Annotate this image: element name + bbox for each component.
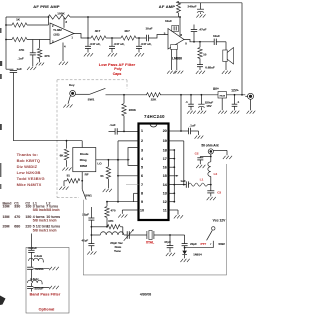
label date bbox=[140, 292, 151, 296]
switch SW1 RF section bbox=[82, 189, 92, 199]
svg-text:Caps: Caps bbox=[113, 72, 122, 76]
capacitor .1uF input bbox=[18, 40, 36, 67]
svg-text:Todd VE3BVG: Todd VE3BVG bbox=[17, 176, 45, 181]
svg-text:9: 9 bbox=[141, 200, 143, 204]
arrow LO into IC bbox=[127, 159, 129, 161]
svg-text:.1: .1 bbox=[237, 100, 240, 104]
capacitor 10uF output bbox=[213, 34, 226, 45]
svg-text:Diode: Diode bbox=[80, 152, 89, 156]
wire pin18 bus bbox=[169, 149, 176, 202]
wire SW1 link dashed bbox=[57, 80, 127, 198]
svg-text:Thanks to:: Thanks to: bbox=[17, 152, 38, 157]
ground pin10 bbox=[118, 214, 127, 217]
label Key bbox=[69, 83, 75, 87]
svg-text:10uF: 10uF bbox=[145, 26, 152, 30]
wire osc node bbox=[91, 226, 108, 228]
svg-text:10uF: 10uF bbox=[213, 34, 220, 38]
svg-text:78L08: 78L08 bbox=[219, 95, 226, 97]
label Vcc 12V bbox=[213, 218, 226, 222]
wire inverting input bbox=[48, 16, 50, 25]
resistor 4K7 first bbox=[91, 29, 106, 40]
label thanks credits bbox=[17, 152, 45, 187]
wire pin8 to V+ bbox=[63, 17, 65, 28]
wire coil to trimmer bbox=[124, 234, 127, 236]
svg-text:1uF: 1uF bbox=[180, 179, 186, 183]
svg-text:10: 10 bbox=[203, 53, 207, 57]
svg-text:47K: 47K bbox=[108, 219, 114, 223]
wire pins2-4 to ground bbox=[171, 45, 178, 70]
inductor osc coil bbox=[100, 232, 124, 235]
connector antenna jack bbox=[208, 149, 213, 154]
svg-text:15: 15 bbox=[163, 174, 167, 178]
speaker SPK bbox=[223, 42, 234, 64]
label AF AMP bbox=[159, 4, 176, 9]
trimmer 20pF Var bbox=[124, 229, 147, 241]
wire pin12 tap bbox=[169, 201, 176, 203]
ground BPF mid bbox=[49, 267, 59, 270]
capacitor 0.68uF zobel bbox=[197, 59, 215, 71]
ground C2 bbox=[196, 165, 205, 168]
wire 12V top bbox=[179, 2, 243, 5]
svg-text:220K: 220K bbox=[129, 108, 137, 112]
label 12V+ bbox=[231, 89, 239, 93]
svg-text:C2: C2 bbox=[195, 151, 199, 155]
wire jack ground bbox=[250, 99, 252, 110]
mixer U3 Diode Ring DBM bbox=[73, 148, 96, 172]
svg-text:2.2uH: 2.2uH bbox=[34, 254, 42, 258]
wire ant to ground bbox=[213, 150, 227, 155]
svg-text:330: 330 bbox=[14, 205, 20, 209]
label SW2 bbox=[210, 242, 225, 246]
svg-text:8V+: 8V+ bbox=[213, 87, 219, 91]
svg-text:10uF: 10uF bbox=[165, 19, 172, 23]
capacitor .47uF bypass bbox=[191, 25, 207, 42]
svg-text:12: 12 bbox=[163, 200, 167, 204]
svg-text:L2: L2 bbox=[214, 172, 218, 176]
svg-text:50 ohm Ant: 50 ohm Ant bbox=[201, 143, 219, 147]
ground pin11 bbox=[174, 215, 183, 218]
svg-text:12V+: 12V+ bbox=[231, 89, 239, 93]
svg-text:47pF: 47pF bbox=[164, 240, 171, 244]
ground 6K8 bbox=[62, 167, 71, 170]
wire pin9 line bbox=[107, 201, 139, 203]
svg-text:100: 100 bbox=[25, 205, 31, 209]
svg-text:PTT: PTT bbox=[200, 242, 206, 246]
svg-text:1 inch: 1 inch bbox=[46, 228, 56, 232]
ground pin20 cap bbox=[195, 136, 204, 139]
svg-text:1uF: 1uF bbox=[17, 67, 23, 71]
label 8V+ bbox=[213, 87, 219, 91]
capacitor .022uF bottom bbox=[27, 286, 43, 291]
wire pin8 stub bbox=[134, 193, 139, 201]
svg-text:20pF: 20pF bbox=[190, 242, 197, 246]
svg-text:.47uF: .47uF bbox=[199, 27, 207, 31]
resistor 10 zobel bbox=[198, 42, 207, 59]
regulator 78L08 bbox=[218, 92, 227, 98]
svg-text:AF AMP: AF AMP bbox=[159, 4, 176, 9]
ground cap left bbox=[187, 111, 196, 114]
svg-text:DBM: DBM bbox=[80, 164, 87, 168]
switch SW1 keying bbox=[88, 88, 106, 101]
ground 47pF right bbox=[166, 253, 175, 256]
resistor 4K7 second bbox=[121, 29, 136, 40]
ground 12V jack bbox=[247, 111, 256, 114]
connector key jack bbox=[70, 91, 76, 97]
resistor 47K input bbox=[6, 37, 50, 52]
svg-text:4K7: 4K7 bbox=[124, 29, 130, 33]
label Low Pass AF Filter bbox=[99, 62, 136, 76]
capacitor 47pF left bbox=[81, 235, 94, 251]
ground 51 RF bbox=[59, 187, 68, 190]
wire BPF mid ground bbox=[33, 267, 49, 269]
ground LM386 pin4 bbox=[175, 71, 184, 74]
svg-text:C3: C3 bbox=[217, 190, 221, 194]
svg-text:470: 470 bbox=[14, 215, 20, 219]
svg-text:XTAL: XTAL bbox=[146, 240, 154, 244]
wire pin14 output bbox=[169, 184, 187, 186]
wire osc column top bbox=[90, 207, 92, 218]
svg-text:Bob KB9TQ: Bob KB9TQ bbox=[17, 158, 41, 163]
connector 12V jack bbox=[245, 93, 253, 99]
svg-text:51: 51 bbox=[67, 174, 71, 178]
capacitor .1 left bbox=[185, 94, 193, 110]
svg-text:74HC240: 74HC240 bbox=[144, 114, 165, 119]
inductor L1 bbox=[188, 183, 210, 186]
wire BPF feed bbox=[30, 234, 32, 250]
ground 47pF left bbox=[87, 251, 96, 254]
op-amp U1 TL082 bbox=[50, 20, 74, 48]
svg-text:Band Pass Filter: Band Pass Filter bbox=[30, 293, 61, 297]
svg-text:.1: .1 bbox=[185, 100, 188, 104]
svg-text:/: / bbox=[210, 242, 211, 246]
node AF-V+ top rail bbox=[6, 16, 181, 18]
wire LM386 output bbox=[184, 40, 214, 43]
wire pin15 arrow bbox=[169, 175, 179, 177]
wire page border bbox=[83, 164, 226, 275]
svg-text:5/8 inch: 5/8 inch bbox=[46, 208, 59, 212]
wire 78L08 ground bbox=[221, 98, 223, 110]
ground op-amp bbox=[59, 62, 68, 65]
capacitor 1uF TX bbox=[180, 179, 188, 188]
svg-text:16: 16 bbox=[163, 166, 167, 170]
ground 240uF bbox=[196, 14, 205, 17]
svg-text:.1uF: .1uF bbox=[18, 57, 24, 61]
svg-text:4K7: 4K7 bbox=[95, 29, 101, 33]
svg-text:10: 10 bbox=[140, 208, 144, 212]
capacitor .022uF mid bbox=[27, 267, 44, 281]
capacitor 47pF right bbox=[164, 235, 173, 252]
svg-text:680: 680 bbox=[14, 225, 20, 229]
svg-text:.022uF: .022uF bbox=[28, 246, 38, 250]
capacitor 20pF bbox=[182, 235, 198, 251]
svg-text:(1/2): (1/2) bbox=[54, 33, 60, 37]
svg-text:Ring: Ring bbox=[80, 158, 87, 162]
wire pin11 ground bbox=[169, 210, 179, 215]
svg-text:AF PRE AMP: AF PRE AMP bbox=[33, 4, 60, 9]
svg-text:220: 220 bbox=[25, 225, 31, 229]
capacitor C2 bbox=[197, 157, 211, 165]
ground speaker bbox=[222, 71, 231, 74]
capacitor 240uF bbox=[188, 3, 204, 14]
svg-text:13: 13 bbox=[163, 192, 167, 196]
svg-text:14: 14 bbox=[163, 183, 167, 187]
wire RF from mixer bbox=[81, 172, 83, 190]
svg-text:18: 18 bbox=[163, 148, 167, 152]
capacitor .047uF shunt 2 bbox=[109, 38, 125, 53]
IC U4 74HC240 bbox=[139, 124, 169, 221]
svg-text:.047 uF,: .047 uF, bbox=[114, 42, 125, 46]
wire 51 RF to ground bbox=[64, 181, 67, 186]
wire key to ground bbox=[63, 95, 72, 107]
svg-text:SW2: SW2 bbox=[218, 242, 225, 246]
wire pin6 to V+ bbox=[179, 16, 181, 37]
resistor 100K feedback bbox=[48, 12, 70, 20]
resistor 1K bbox=[6, 18, 49, 28]
wire pin4 to ground bbox=[62, 43, 64, 62]
label band table bbox=[3, 201, 61, 232]
switch SW2 PTT bbox=[185, 230, 214, 247]
capacitor 10uF coupling bbox=[145, 26, 152, 41]
resistor 51 LO term bbox=[100, 160, 110, 188]
crystal XTAL bbox=[147, 231, 170, 240]
ground .1uF input bbox=[27, 67, 36, 70]
wire pin16 tap bbox=[169, 166, 176, 168]
svg-text:11: 11 bbox=[163, 208, 167, 212]
ground antenna bbox=[223, 156, 232, 159]
wire to LM386 in bbox=[149, 35, 169, 39]
ground 51 LO bbox=[103, 189, 112, 192]
label C3 bbox=[217, 190, 221, 194]
label AF PRE AMP bbox=[33, 4, 60, 9]
svg-text:5/8 inch: 5/8 inch bbox=[33, 208, 46, 212]
capacitor 22pF bbox=[82, 212, 94, 236]
resistor 22K bbox=[147, 93, 161, 102]
resistor 220K bbox=[122, 95, 137, 132]
wire node3 bbox=[136, 37, 146, 39]
svg-text:19: 19 bbox=[163, 139, 167, 143]
svg-text:SW1: SW1 bbox=[88, 97, 95, 101]
op-amp U2 LM386 bbox=[164, 29, 188, 61]
label C2 bbox=[195, 151, 199, 155]
svg-text:Tune: Tune bbox=[114, 249, 121, 253]
svg-text:Vcc 12V: Vcc 12V bbox=[213, 218, 226, 222]
svg-text:0.68uF: 0.68uF bbox=[205, 65, 215, 69]
wire osc line left bbox=[91, 234, 100, 236]
resistor 47K to ground bbox=[37, 40, 50, 63]
capacitor 220uF 16V bbox=[198, 94, 213, 110]
capacitor C3 bbox=[207, 191, 214, 197]
capacitor 1uF input bbox=[6, 67, 22, 141]
svg-text:.022uF: .022uF bbox=[35, 267, 45, 271]
svg-text:10M: 10M bbox=[3, 205, 10, 209]
wire AF to mixer bbox=[13, 140, 82, 148]
wire pin10 ground bbox=[122, 210, 138, 214]
wire LO line bbox=[96, 159, 129, 166]
svg-text:.047 uF,: .047 uF, bbox=[141, 42, 152, 46]
capacitor .022uF top bbox=[28, 246, 38, 261]
wire pin7 stub bbox=[126, 184, 139, 186]
svg-text:100K: 100K bbox=[57, 12, 65, 16]
svg-text:15M: 15M bbox=[3, 215, 10, 219]
svg-text:5/8 inch: 5/8 inch bbox=[33, 218, 46, 222]
capacitor .1 right bbox=[232, 94, 240, 110]
svg-text:.1uF: .1uF bbox=[109, 123, 115, 127]
inductor 2.2uH bbox=[29, 254, 44, 267]
svg-text:47K: 47K bbox=[44, 54, 50, 58]
connector Vcc terminal bbox=[212, 227, 215, 230]
svg-text:Mike N4MTX: Mike N4MTX bbox=[17, 182, 42, 187]
svg-text:16V: 16V bbox=[206, 104, 211, 108]
svg-text:Poly: Poly bbox=[114, 67, 121, 71]
capacitor 10uF gain pins1-8 bbox=[165, 19, 179, 32]
label L1 bbox=[200, 178, 204, 182]
inductor 3.3uH bbox=[27, 277, 42, 287]
svg-text:20: 20 bbox=[163, 129, 167, 133]
svg-text:150: 150 bbox=[25, 215, 31, 219]
resistor 51 RF bbox=[67, 174, 80, 183]
svg-text:240uF: 240uF bbox=[188, 5, 197, 9]
svg-text:51: 51 bbox=[100, 174, 104, 178]
wire speaker to ground bbox=[225, 62, 227, 71]
capacitor .047uF shunt 1 bbox=[85, 38, 101, 53]
svg-text:47pF: 47pF bbox=[81, 239, 88, 243]
capacitor .1uF pin20 bbox=[181, 124, 199, 135]
label 20pF Var bbox=[110, 241, 123, 253]
label L2 bbox=[214, 172, 218, 176]
svg-text:LO: LO bbox=[97, 162, 102, 166]
wire pin17 tap bbox=[169, 158, 176, 160]
svg-text:4/30/08: 4/30/08 bbox=[140, 292, 151, 296]
ground shunt 1 bbox=[84, 53, 93, 56]
svg-text:3: 3 bbox=[141, 148, 143, 152]
wire left input bus bbox=[5, 17, 7, 69]
wire pin2 bus bbox=[117, 141, 138, 202]
svg-text:470: 470 bbox=[110, 208, 115, 212]
svg-text:22K: 22K bbox=[151, 98, 157, 102]
ground cap right bbox=[231, 111, 240, 114]
wire node2 bbox=[106, 37, 121, 39]
svg-text:1 inch: 1 inch bbox=[46, 218, 56, 222]
svg-text:47K: 47K bbox=[19, 48, 25, 52]
capacitor .1uF pin1 bbox=[109, 123, 125, 135]
inductor L2 bbox=[208, 162, 212, 191]
resistor 12V dropping bbox=[177, 1, 181, 17]
svg-text:8: 8 bbox=[141, 192, 143, 196]
svg-text:Lew N2KGB: Lew N2KGB bbox=[17, 170, 41, 175]
node 8V rail bbox=[106, 94, 246, 96]
label XTAL bbox=[146, 240, 154, 244]
ground shunt 2 bbox=[108, 53, 117, 56]
svg-text:4: 4 bbox=[141, 157, 143, 161]
label RF bbox=[85, 172, 89, 176]
capacitor .047uF shunt 3 bbox=[136, 38, 152, 53]
svg-text:1N914: 1N914 bbox=[193, 253, 202, 257]
svg-text:Optional: Optional bbox=[39, 307, 55, 311]
ground diode bbox=[180, 259, 189, 262]
label Band Pass Filter bbox=[30, 293, 61, 297]
ground 47K input bbox=[36, 63, 44, 66]
ground LM386 pin2 bbox=[167, 71, 176, 74]
wire pin6 tap bbox=[118, 175, 139, 177]
wire ant down bbox=[210, 154, 212, 162]
ground shunt 3 bbox=[135, 53, 144, 56]
svg-text:Key: Key bbox=[69, 83, 75, 87]
wire BPF bottom ground bbox=[33, 286, 49, 288]
wire osc to caps bbox=[169, 234, 185, 236]
wire pin19 bus bbox=[169, 141, 185, 186]
wire op-amp output bbox=[74, 34, 91, 39]
wire loop pins3-5 bbox=[128, 148, 139, 166]
wire key to switch bbox=[76, 93, 90, 95]
box band pass filter bbox=[26, 248, 69, 314]
ground BPF bottom bbox=[49, 286, 59, 289]
svg-text:Diz W8DIZ: Diz W8DIZ bbox=[17, 164, 38, 169]
wire pin1 bbox=[124, 130, 139, 132]
resistor 47K osc bbox=[107, 219, 123, 235]
label Optional bbox=[39, 307, 55, 311]
resistor 6K8 bbox=[60, 141, 69, 167]
diode D1 1N914 bbox=[182, 251, 202, 259]
label PTT bbox=[200, 242, 206, 246]
svg-text:.1uF: .1uF bbox=[189, 124, 195, 128]
svg-text:6: 6 bbox=[141, 174, 143, 178]
resistor 470 feedback bbox=[105, 201, 116, 227]
wire pin13 tap bbox=[169, 192, 176, 194]
svg-text:L1: L1 bbox=[200, 178, 204, 182]
svg-text:SW1: SW1 bbox=[85, 194, 92, 198]
wire feedback tap bbox=[87, 16, 89, 38]
svg-text:TL082: TL082 bbox=[53, 28, 62, 32]
label IC pins bbox=[140, 129, 167, 212]
label 74HC240 bbox=[144, 114, 165, 119]
svg-text:RF: RF bbox=[85, 172, 89, 176]
svg-text:7: 7 bbox=[141, 183, 143, 187]
wire left edge marks bbox=[0, 28, 6, 305]
svg-text:.047 uF,: .047 uF, bbox=[90, 42, 101, 46]
ground C3 bbox=[207, 197, 216, 200]
svg-text:5/8 inch: 5/8 inch bbox=[33, 228, 46, 232]
label 50 ohm Ant bbox=[201, 143, 219, 147]
svg-text:1: 1 bbox=[141, 129, 143, 133]
svg-text:17: 17 bbox=[163, 157, 167, 161]
svg-text:2: 2 bbox=[141, 139, 143, 143]
ground 78L08 bbox=[218, 111, 227, 114]
ground 220uF bbox=[197, 111, 206, 114]
svg-text:5: 5 bbox=[141, 166, 143, 170]
ground zobel bbox=[196, 71, 205, 74]
wire pin20 supply bbox=[169, 95, 182, 132]
svg-text:20M: 20M bbox=[3, 225, 10, 229]
wire 12V right side bbox=[241, 3, 243, 95]
